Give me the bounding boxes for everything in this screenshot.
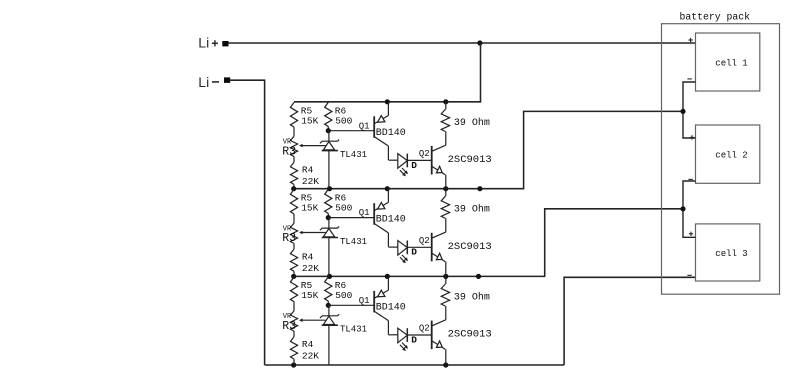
- svg-text:R3: R3: [282, 320, 296, 333]
- cell + terminal mark: [689, 233, 693, 235]
- svg-text:Li: Li: [198, 74, 209, 90]
- wire Li+ to battery pack: [229, 42, 696, 44]
- svg-text:R3: R3: [282, 145, 296, 158]
- svg-text:22K: 22K: [302, 351, 319, 362]
- resistor R6 (section 3): [325, 277, 332, 301]
- node R6 / TL431 / Q1 base (section 1): [326, 128, 331, 133]
- svg-text:22K: 22K: [302, 263, 319, 274]
- cell + terminal mark: [688, 39, 692, 41]
- transistor Q2 2SC9013 (section 2): [431, 233, 433, 262]
- resistor R6 (section 1): [325, 102, 332, 126]
- svg-text:TL431: TL431: [340, 237, 367, 247]
- resistor R5 (section 1): [290, 102, 297, 127]
- svg-text:2SC9013: 2SC9013: [448, 329, 492, 341]
- resistor R5 (section 2): [290, 189, 297, 214]
- cell + terminal mark: [690, 136, 694, 138]
- shunt regulator TL431 (section 1): [328, 131, 330, 142]
- node rail2 junction: [291, 186, 296, 191]
- svg-text:500: 500: [335, 116, 352, 127]
- svg-text:15K: 15K: [301, 116, 318, 127]
- wire bottom rail (cell3-): [265, 364, 564, 366]
- transistor Q2 2SC9013 (section 1): [431, 146, 433, 175]
- svg-text:D: D: [411, 247, 417, 258]
- transistor Q1 BD140 (section 2): [387, 189, 389, 203]
- node rail2 junction: [443, 186, 448, 191]
- cell 3 box: [696, 224, 760, 281]
- transistor Q1 BD140 (section 3): [387, 276, 389, 290]
- node balance tap 2: [680, 206, 685, 211]
- node rail2 junction: [327, 186, 332, 191]
- svg-text:BD140: BD140: [376, 215, 406, 226]
- potentiometer R3 (section 1): [290, 136, 297, 156]
- svg-text:39 Ohm: 39 Ohm: [454, 117, 490, 129]
- svg-text:Q2: Q2: [419, 149, 430, 159]
- resistor R5 (section 3): [290, 277, 297, 302]
- wire cell2- to cell3+ connector: [683, 181, 696, 237]
- potentiometer R3 (section 3): [290, 311, 297, 331]
- shunt regulator TL431 (section 2): [328, 218, 330, 229]
- svg-text:BD140: BD140: [376, 128, 406, 139]
- svg-text:2SC9013: 2SC9013: [448, 241, 492, 253]
- node bottom rail junction: [443, 362, 448, 367]
- node rail3 junction: [476, 274, 481, 279]
- svg-text:TL431: TL431: [340, 325, 367, 335]
- node rail1 junction: [443, 99, 448, 104]
- Li+ terminal square: [222, 41, 228, 46]
- svg-text:BD140: BD140: [376, 302, 406, 313]
- resistor 39 Ohm (section 2): [445, 189, 447, 197]
- cell 2 box: [696, 125, 760, 183]
- wire cell3- return: [564, 277, 695, 365]
- resistor 39 Ohm (section 3): [445, 276, 447, 284]
- node rail3 junction: [385, 274, 390, 279]
- svg-text:Li: Li: [198, 34, 209, 50]
- svg-text:Q2: Q2: [419, 236, 430, 246]
- wire rail 3 (cell2-/cell3+) with riser to pack: [294, 209, 683, 277]
- LED D (section 3): [388, 334, 397, 336]
- potentiometer R3 (section 2): [290, 223, 297, 243]
- svg-text:cell 3: cell 3: [715, 249, 747, 259]
- svg-text:battery pack: battery pack: [680, 12, 751, 23]
- resistor R4 (section 1): [290, 162, 297, 184]
- svg-text:D: D: [411, 160, 417, 171]
- cell - terminal mark: [687, 78, 691, 80]
- node rail3 junction: [443, 274, 448, 279]
- svg-text:Q1: Q1: [359, 296, 370, 306]
- wire Li- to bottom rail: [230, 80, 264, 365]
- svg-text:D: D: [411, 334, 417, 345]
- node R6 / TL431 / Q1 base (section 2): [326, 215, 331, 220]
- svg-text:R4: R4: [302, 251, 314, 262]
- cell 1 box: [696, 33, 760, 91]
- node rail2 junction: [385, 186, 390, 191]
- svg-text:cell 1: cell 1: [715, 59, 747, 69]
- wire top rail (cell1+) with riser to Li+: [294, 43, 481, 102]
- node Li+ / cell stack junction: [477, 40, 482, 45]
- svg-text:Q2: Q2: [419, 324, 430, 334]
- resistor R4 (section 2): [290, 249, 297, 271]
- battery pack box: [662, 24, 780, 295]
- svg-text:39 Ohm: 39 Ohm: [454, 291, 490, 303]
- cell - terminal mark: [687, 274, 691, 276]
- svg-text:2SC9013: 2SC9013: [448, 154, 492, 166]
- node balance tap 1: [680, 109, 685, 114]
- resistor R4 (section 3): [290, 337, 297, 359]
- resistor R6 (section 2): [325, 189, 332, 213]
- svg-text:R3: R3: [282, 232, 296, 245]
- svg-text:500: 500: [335, 290, 352, 301]
- svg-text:cell 2: cell 2: [715, 151, 747, 161]
- node rail3 junction: [291, 274, 296, 279]
- Li- terminal square: [224, 77, 230, 83]
- svg-text:39 Ohm: 39 Ohm: [454, 204, 490, 216]
- shunt regulator TL431 (section 3): [328, 305, 330, 316]
- node bottom rail junction: [291, 362, 296, 367]
- wire rail 2 (cell1-/cell2+) with riser to pack: [294, 111, 683, 188]
- resistor 39 Ohm (section 1): [445, 102, 447, 110]
- LED D (section 1): [388, 159, 397, 161]
- svg-text:Q1: Q1: [359, 121, 370, 131]
- svg-text:Q1: Q1: [359, 208, 370, 218]
- svg-text:22K: 22K: [302, 176, 319, 187]
- cell - terminal mark: [688, 178, 692, 180]
- svg-text:TL431: TL431: [340, 150, 367, 160]
- node R6 / TL431 / Q1 base (section 3): [326, 303, 331, 308]
- svg-text:15K: 15K: [301, 290, 318, 301]
- transistor Q1 BD140 (section 1): [387, 102, 389, 116]
- node rail3 junction: [327, 274, 332, 279]
- node rail2 junction: [477, 186, 482, 191]
- transistor Q2 2SC9013 (section 3): [431, 321, 433, 350]
- svg-text:15K: 15K: [301, 202, 318, 213]
- svg-text:500: 500: [335, 202, 352, 213]
- LED D (section 2): [388, 246, 397, 248]
- svg-text:R4: R4: [302, 339, 314, 350]
- svg-text:R4: R4: [302, 164, 314, 175]
- wire cell1- to cell2+ connector: [683, 82, 696, 138]
- node rail1 junction: [385, 99, 390, 104]
